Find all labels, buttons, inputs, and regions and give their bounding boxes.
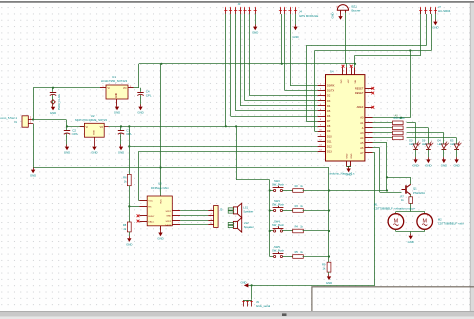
wire D13 line bbox=[138, 151, 317, 153]
wire U1 VO to C4 node bbox=[134, 87, 140, 89]
resistor R12 bbox=[393, 131, 404, 135]
junction C1 tap bbox=[52, 87, 54, 89]
ground below HC-SR04 bbox=[432, 20, 438, 30]
svg-text:D0/RX: D0/RX bbox=[327, 84, 335, 88]
header J4 (GPS) pin 4 bbox=[294, 7, 297, 14]
svg-text:GND: GND bbox=[137, 111, 143, 115]
svg-text:D3: D3 bbox=[327, 99, 331, 103]
wire mid GND rail bbox=[33, 124, 329, 168]
junction left bus row 2 bbox=[269, 209, 271, 211]
bottom rail GND flag bbox=[244, 283, 249, 287]
svg-text:D12: D12 bbox=[327, 144, 332, 148]
wire A2 to R11 bbox=[373, 127, 393, 129]
capacitor C3 bbox=[118, 126, 133, 136]
wire C3 to ground bbox=[120, 136, 122, 144]
wire J3 to arduino D4 bbox=[240, 14, 317, 106]
wire C4 to ground bbox=[140, 98, 142, 105]
svg-text:GND: GND bbox=[345, 172, 351, 176]
header J3 pin 4 bbox=[239, 7, 242, 14]
svg-text:R10-13 1k: R10-13 1k bbox=[394, 117, 406, 120]
wire LED D3 to ground bbox=[428, 149, 430, 157]
svg-text:R7: R7 bbox=[400, 195, 404, 199]
junction right bus row1 bbox=[328, 189, 330, 191]
header J3 pin 2 bbox=[229, 7, 232, 14]
wire R12 to LED D4 bbox=[407, 133, 444, 144]
wire R3 to right bus bbox=[303, 210, 329, 212]
svg-text:LD1117S50_SOT223: LD1117S50_SOT223 bbox=[101, 79, 128, 83]
junction RX divider bbox=[128, 205, 130, 207]
dfplayer U3 body bbox=[147, 196, 172, 226]
ground below LED D5 bbox=[453, 157, 459, 167]
header J3 pin 3 bbox=[234, 7, 237, 14]
junction right bus row3 bbox=[328, 230, 330, 232]
svg-text:+5V: +5V bbox=[348, 79, 350, 83]
wire motors to ground bbox=[410, 232, 412, 234]
U2 pin stubs bbox=[80, 126, 85, 128]
svg-text:DFPlayer Mini: DFPlayer Mini bbox=[151, 186, 169, 190]
wire R8 to ground bbox=[129, 232, 131, 236]
ground below J3 bbox=[252, 25, 258, 35]
LED D3 bbox=[426, 142, 433, 150]
U4 top pins bbox=[343, 67, 355, 74]
J5 pin stubs bbox=[208, 209, 213, 225]
svg-text:R8: R8 bbox=[123, 223, 127, 227]
wire R13 to LED D5 bbox=[407, 138, 457, 144]
wire to Q1 collector bbox=[387, 177, 411, 184]
svg-text:D11: D11 bbox=[327, 139, 332, 143]
svg-text:CPL: CPL bbox=[146, 94, 152, 98]
resistor R10 bbox=[393, 121, 404, 125]
svg-text:GND: GND bbox=[453, 164, 459, 168]
wire motor + rail bbox=[396, 211, 425, 213]
capacitor C4 bbox=[137, 88, 152, 99]
svg-text:D4: D4 bbox=[327, 104, 331, 108]
svg-text:D7: D7 bbox=[327, 119, 331, 123]
svg-text:BUSY: BUSY bbox=[148, 216, 154, 218]
U4 left pins D0-D13 bbox=[318, 84, 335, 154]
switch SW2 (SW_Push) bbox=[273, 186, 284, 192]
wire HC-SR04 echo to D9 bbox=[315, 14, 432, 132]
svg-text:GND: GND bbox=[30, 174, 36, 178]
junction collector row bbox=[386, 189, 388, 191]
junction feeder tee bbox=[235, 125, 237, 127]
wire LED D4 to ground bbox=[443, 149, 445, 157]
junction left bus row 3 bbox=[269, 230, 271, 232]
U4 right no-connects bbox=[371, 87, 374, 90]
header J3 pin 5 bbox=[243, 7, 246, 14]
header J7 (HC-SR04) pin 1 bbox=[419, 7, 422, 14]
header J3 pin 1 bbox=[224, 7, 227, 14]
svg-text:A: A bbox=[362, 126, 364, 130]
wire Q1 emitter to R7 bbox=[410, 195, 412, 197]
wire GPS VCC to +5V rail bbox=[281, 14, 283, 64]
wire A6 to Q1 base bbox=[373, 148, 402, 193]
wire A1 to R10 bbox=[373, 122, 393, 124]
switch SW4 (SW_Push) bbox=[273, 226, 284, 232]
header J4 (GPS) pin 3 bbox=[288, 7, 291, 14]
wire U3 to J5 at y=220.7 bbox=[180, 220, 208, 222]
wire SW5 to R5 bbox=[283, 256, 293, 258]
resistor R4 bbox=[293, 229, 304, 233]
buzzer BZ1 bbox=[337, 5, 348, 11]
svg-text:GND: GND bbox=[50, 111, 56, 115]
wire switch right bus bbox=[328, 168, 330, 263]
svg-text:GND: GND bbox=[91, 151, 97, 155]
wire J3 pin1 to 3V3/D8 line bbox=[225, 14, 227, 126]
wire +5V into arduino 5V pin bbox=[354, 64, 356, 67]
wire buzzer to arduino VIN pin bbox=[345, 13, 347, 64]
regulator U1 body bbox=[106, 85, 128, 99]
svg-text:D9: D9 bbox=[327, 129, 331, 133]
U4 right pins bbox=[355, 86, 373, 155]
svg-text:LED: LED bbox=[450, 143, 455, 146]
svg-text:D8: D8 bbox=[327, 124, 331, 128]
svg-text:D1/TX: D1/TX bbox=[327, 89, 335, 93]
junction R6 riser tee bbox=[128, 125, 130, 127]
U3 bottom pin stub bbox=[160, 226, 162, 231]
U1 GND pin stub bbox=[116, 99, 118, 105]
junction +5V to GPS bbox=[281, 63, 283, 65]
wire U3 to J5 at y=210.8 bbox=[180, 210, 208, 212]
svg-text:DACR: DACR bbox=[165, 224, 172, 227]
ground below C3 bbox=[118, 145, 124, 155]
wire LED D2 to ground bbox=[415, 149, 417, 157]
ground below LED D2 bbox=[412, 157, 418, 167]
header J7 (HC-SR04) pin 3 bbox=[429, 7, 432, 14]
svg-text:D10: D10 bbox=[327, 134, 332, 138]
svg-text:D2: D2 bbox=[327, 94, 331, 98]
U4 bottom GND pins bbox=[346, 153, 353, 166]
ground below LED D4 bbox=[441, 157, 447, 167]
U1 pin VO stub bbox=[128, 87, 134, 89]
svg-text:RX: RX bbox=[148, 207, 152, 209]
capacitor C2 bbox=[64, 126, 79, 136]
ground below U3 bbox=[157, 230, 163, 240]
svg-text:GND: GND bbox=[408, 240, 414, 244]
ground below R9 bbox=[326, 274, 332, 285]
wire row1 extension to transistor bbox=[329, 190, 387, 192]
svg-text:HC-SR04: HC-SR04 bbox=[438, 9, 451, 13]
wire U2 3V3 line to D8 bbox=[109, 126, 318, 128]
window bottom bar bbox=[0, 311, 474, 312]
svg-text:VO: VO bbox=[123, 87, 127, 90]
title block frame bbox=[312, 287, 474, 311]
wire SW3 to R3 bbox=[283, 210, 293, 212]
junction C2 tap bbox=[66, 125, 68, 127]
U2 GND pin stub bbox=[94, 137, 96, 144]
U3 left pins bbox=[139, 200, 155, 223]
svg-text:CDT7088BELF <vibration motor>: CDT7088BELF <vibration motor> bbox=[374, 207, 416, 211]
svg-text:U4: U4 bbox=[330, 70, 334, 74]
svg-text:J7: J7 bbox=[438, 5, 441, 9]
ground below C2 bbox=[64, 145, 70, 155]
svg-text:SW_Push: SW_Push bbox=[272, 249, 284, 253]
wire M1 - down bbox=[395, 230, 397, 232]
J1 pin 1 stub bbox=[28, 123, 33, 125]
wire +5V rail bbox=[139, 63, 355, 65]
wire GPS TX to D1 bbox=[285, 14, 318, 91]
wire C2 to ground bbox=[66, 136, 68, 144]
svg-text:D13: D13 bbox=[327, 150, 332, 154]
svg-text:Speaker: Speaker bbox=[244, 225, 254, 229]
header J7 (HC-SR04) pin 2 bbox=[424, 7, 427, 14]
svg-text:GND: GND bbox=[432, 26, 438, 30]
svg-text:RESET: RESET bbox=[355, 86, 364, 90]
ground below arduino bbox=[345, 166, 351, 176]
junction brick serial riser bbox=[251, 284, 253, 286]
resistor R2 bbox=[293, 189, 304, 193]
svg-text:GND: GND bbox=[346, 153, 348, 158]
wire to M1 + bbox=[395, 212, 397, 214]
U1 pin VI stub bbox=[100, 87, 106, 89]
svg-text:LS2: LS2 bbox=[244, 221, 249, 225]
ground below U1 bbox=[114, 105, 120, 115]
wire R6 to U3 RX bbox=[129, 186, 139, 207]
arduino U4 body bbox=[326, 75, 365, 161]
svg-text:GND: GND bbox=[116, 93, 118, 98]
junction echo tee bbox=[409, 49, 411, 51]
wire GPS GND bbox=[295, 14, 297, 25]
svg-text:R9: R9 bbox=[322, 263, 326, 267]
junction right bus row4 bbox=[328, 255, 330, 257]
wire R11 to LED D3 bbox=[407, 128, 429, 144]
svg-text:LS1: LS1 bbox=[243, 206, 248, 210]
J1 pin 2 stub bbox=[28, 119, 33, 121]
svg-text:VI: VI bbox=[86, 127, 89, 129]
svg-text:LED: LED bbox=[438, 143, 443, 146]
svg-text:AREF: AREF bbox=[357, 105, 364, 109]
svg-text:GND: GND bbox=[331, 12, 335, 18]
svg-text:GND: GND bbox=[126, 243, 132, 247]
ground below R8 bbox=[126, 236, 132, 247]
junction left bus row 1 bbox=[269, 189, 271, 191]
resistor R5 bbox=[293, 255, 304, 259]
PWR_FLAG symbol bbox=[51, 100, 56, 105]
wire A5 to collector net riser bbox=[373, 143, 388, 191]
wire LED D5 to ground bbox=[456, 149, 458, 157]
svg-text:GND: GND bbox=[412, 164, 418, 168]
svg-text:CDT7088BELF <vibr: CDT7088BELF <vibr bbox=[438, 222, 464, 226]
resistor R9 bbox=[327, 262, 331, 272]
junction J3 pin1 tee bbox=[225, 125, 227, 127]
U4 top no-connects bbox=[342, 65, 345, 68]
wire bus to SW2 bbox=[270, 190, 274, 192]
resistor R6 bbox=[127, 174, 131, 185]
wire to brick serial bbox=[251, 285, 253, 299]
U3 right pins bbox=[165, 211, 180, 227]
svg-text:MCP1700-3302E_SOT23: MCP1700-3302E_SOT23 bbox=[75, 118, 107, 122]
resistor R3 bbox=[293, 209, 304, 213]
wire M2 - down bbox=[424, 230, 426, 232]
svg-text:GND: GND bbox=[351, 153, 353, 158]
regulator U2 body bbox=[84, 123, 104, 137]
ground below motors bbox=[408, 234, 414, 245]
ground below U2 bbox=[91, 145, 97, 155]
svg-text:GND: GND bbox=[64, 151, 70, 155]
svg-text:LED: LED bbox=[409, 143, 414, 146]
svg-text:D5: D5 bbox=[327, 109, 331, 113]
junction C3 tap bbox=[120, 125, 122, 127]
svg-text:brick_serial: brick_serial bbox=[256, 304, 271, 308]
svg-text:SPK2: SPK2 bbox=[166, 221, 172, 223]
wire bottom GND rail bbox=[248, 285, 375, 287]
svg-text:SW_Push: SW_Push bbox=[272, 223, 284, 227]
svg-text:PN2222A: PN2222A bbox=[413, 191, 425, 195]
wire HC-SR04 GND bbox=[435, 14, 437, 20]
svg-text:GND: GND bbox=[441, 164, 447, 168]
svg-text:Buzzer: Buzzer bbox=[352, 9, 361, 13]
svg-text:RESET: RESET bbox=[355, 91, 364, 95]
wire A4 to R13 bbox=[373, 137, 393, 139]
wire J3 pin7 to ground bbox=[255, 14, 257, 25]
header J4 (GPS) pin 1 bbox=[279, 7, 282, 14]
connector J5 body bbox=[214, 206, 219, 228]
wire J3 to arduino D5 bbox=[236, 14, 318, 111]
wire SW4 to R4 bbox=[283, 230, 293, 232]
wire bus to SW5 bbox=[270, 256, 274, 258]
svg-text:GND: GND bbox=[326, 281, 332, 285]
header J3 pin 7 bbox=[254, 7, 257, 14]
bottom bar tick bbox=[282, 313, 287, 316]
wire 3V3 feeder riser to switches bbox=[236, 126, 238, 180]
speaker LS2 bbox=[233, 221, 237, 228]
svg-text:SW_Push: SW_Push bbox=[272, 203, 284, 207]
junction D12 tap bbox=[128, 145, 130, 147]
svg-text:J5: J5 bbox=[220, 207, 223, 211]
wire D13 riser to U3 pin1 bbox=[138, 152, 139, 201]
svg-text:GND: GND bbox=[118, 151, 124, 155]
resistor R11 bbox=[393, 126, 404, 130]
LED D2 bbox=[413, 142, 420, 150]
svg-text:SW3: SW3 bbox=[274, 199, 280, 203]
window top edge bbox=[0, 1, 474, 3]
svg-text:J1: J1 bbox=[14, 120, 17, 124]
svg-text:GND: GND bbox=[157, 237, 163, 241]
wire HC-SR04 VCC to +5V bbox=[355, 11, 422, 64]
junction right bus row2 bbox=[328, 209, 330, 211]
wire buzzer joins arduino top pin bbox=[346, 64, 348, 68]
resistor R8 bbox=[127, 222, 131, 232]
svg-text:Speaker: Speaker bbox=[243, 209, 253, 213]
header J4 (GPS) pin 2 bbox=[283, 7, 286, 14]
wire switch left bus bbox=[236, 180, 270, 257]
ground at rail left end bbox=[30, 168, 36, 178]
motor M1 bbox=[388, 214, 404, 230]
svg-text:GND: GND bbox=[93, 130, 95, 135]
capacitor C1 (polarized) bbox=[50, 88, 56, 99]
wire SW2 to R2 bbox=[283, 190, 293, 192]
svg-text:R6: R6 bbox=[123, 176, 127, 180]
svg-text:VCC: VCC bbox=[161, 199, 163, 204]
ground below LED D3 bbox=[425, 157, 431, 167]
wire J1+ to U1 VI bbox=[33, 88, 100, 120]
speaker LS1 bbox=[233, 207, 237, 214]
svg-text:VIN: VIN bbox=[355, 79, 357, 83]
svg-text:SW4: SW4 bbox=[274, 219, 280, 223]
junction collector jog bbox=[386, 176, 388, 178]
svg-text:VCC: VCC bbox=[148, 200, 153, 202]
wire J3 to arduino D3 bbox=[245, 14, 318, 101]
motor M2 bbox=[417, 214, 433, 230]
wire bus to SW3 bbox=[270, 210, 274, 212]
svg-text:SW2: SW2 bbox=[274, 179, 280, 183]
wire 3V3 riser to R6 bbox=[129, 126, 131, 174]
svg-text:CPL: CPL bbox=[72, 132, 78, 136]
wire bus to SW4 bbox=[270, 230, 274, 232]
switch SW3 (SW_Push) bbox=[273, 206, 284, 212]
resistor R13 bbox=[393, 136, 404, 140]
ground below C4 bbox=[137, 105, 143, 115]
wire R4 to right bus bbox=[303, 230, 329, 232]
LED D4 bbox=[442, 142, 449, 150]
wire J1+ to U2 VI bbox=[33, 120, 84, 127]
svg-text:GND: GND bbox=[166, 216, 171, 218]
connector J1 body bbox=[22, 116, 28, 127]
ground below C1 bbox=[50, 105, 56, 115]
svg-text:VO: VO bbox=[100, 127, 104, 129]
connector J9 (brick serial) bbox=[242, 300, 253, 307]
wire R2 to right bus bbox=[303, 190, 329, 192]
svg-text:PWR_FLAG: PWR_FLAG bbox=[57, 93, 61, 110]
svg-text:SW_Push: SW_Push bbox=[272, 183, 284, 187]
svg-text:GND: GND bbox=[114, 111, 120, 115]
svg-text:J3: J3 bbox=[238, 2, 241, 6]
wire R10 to LED D2 bbox=[407, 123, 416, 144]
svg-text:GPS MODULE: GPS MODULE bbox=[299, 14, 318, 18]
wire +5V riser from U1 bbox=[138, 64, 140, 88]
resistor R7 bbox=[409, 197, 413, 204]
switch SW5 (SW_Push) bbox=[273, 252, 284, 258]
wire J3 to arduino D2 bbox=[250, 14, 318, 96]
ground below buzzer bbox=[338, 14, 342, 20]
wire R7 to motors bbox=[410, 203, 412, 211]
wire C1 to ground bbox=[52, 98, 54, 105]
svg-text:SPK1: SPK1 bbox=[166, 211, 172, 213]
junction +5V at arduino bbox=[354, 63, 356, 65]
wire U4 gnd join bbox=[346, 166, 351, 168]
wire A7 to bottom GND rail bbox=[373, 153, 375, 286]
U3 left no-connect arrows bbox=[137, 214, 140, 217]
transistor Q1 bbox=[405, 185, 407, 193]
wire motor - rail bbox=[396, 231, 425, 233]
wire U3 to J5 at y=224.7 bbox=[180, 224, 208, 226]
ground below GPS bbox=[292, 25, 298, 40]
svg-text:GND: GND bbox=[252, 31, 258, 35]
svg-text:DACL: DACL bbox=[148, 220, 155, 223]
wire HC-SR04 trig to D7 bbox=[306, 14, 426, 122]
wire D12 line bbox=[129, 146, 317, 148]
wire +5V riser down to U3 bbox=[160, 64, 162, 196]
wire R9 to ground bbox=[328, 272, 330, 274]
header J7 (HC-SR04) pin 4 bbox=[434, 7, 437, 14]
svg-text:GND: GND bbox=[241, 280, 247, 284]
wire GPS RX to D0 bbox=[290, 14, 318, 86]
svg-text:Q1: Q1 bbox=[413, 186, 417, 190]
window right edge bbox=[470, 3, 474, 312]
wire divider to R8 bbox=[129, 206, 131, 222]
LED D5 bbox=[454, 142, 461, 150]
wire R5 to right bus bbox=[303, 256, 329, 258]
junction U3 VCC riser crossing bbox=[159, 166, 161, 168]
svg-text:D6: D6 bbox=[327, 114, 331, 118]
svg-text:VI: VI bbox=[108, 87, 111, 90]
header J3 pin 6 bbox=[248, 7, 251, 14]
svg-text:U3: U3 bbox=[158, 181, 162, 185]
wire J3 to arduino D6 bbox=[231, 14, 318, 117]
svg-text:SW5: SW5 bbox=[274, 245, 280, 249]
junction +5V to U3 riser bbox=[160, 63, 162, 65]
wire HC-SR04 echo to A0 bbox=[373, 51, 411, 118]
